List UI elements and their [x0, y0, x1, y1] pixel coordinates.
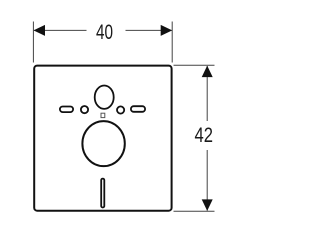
arrowhead down	[202, 199, 213, 211]
insulation plate outline	[34, 66, 171, 211]
right slot cutout	[131, 106, 145, 112]
bottom vertical slot	[101, 179, 104, 208]
svg-text:42: 42	[195, 124, 214, 147]
extension line right-top	[174, 64, 215, 66]
extension line top-right	[171, 22, 173, 63]
arrowhead up	[202, 66, 213, 78]
svg-text:40: 40	[96, 21, 113, 44]
dimension line 42 upper segment	[206, 66, 208, 121]
left small hole	[81, 106, 88, 113]
arrowhead right	[161, 25, 173, 36]
extension line top-left	[32, 22, 34, 63]
left slot cutout	[60, 107, 73, 113]
arrowhead left	[34, 25, 46, 36]
large circle cutout	[82, 121, 124, 166]
small square mark	[101, 113, 105, 117]
dimension line 40 right segment	[126, 29, 172, 31]
extension line right-bottom	[174, 210, 215, 212]
dimension line 40 left segment	[34, 29, 86, 31]
right small hole	[117, 106, 124, 113]
top ellipse cutout	[95, 86, 114, 109]
dimension line 42 lower segment	[206, 150, 208, 211]
